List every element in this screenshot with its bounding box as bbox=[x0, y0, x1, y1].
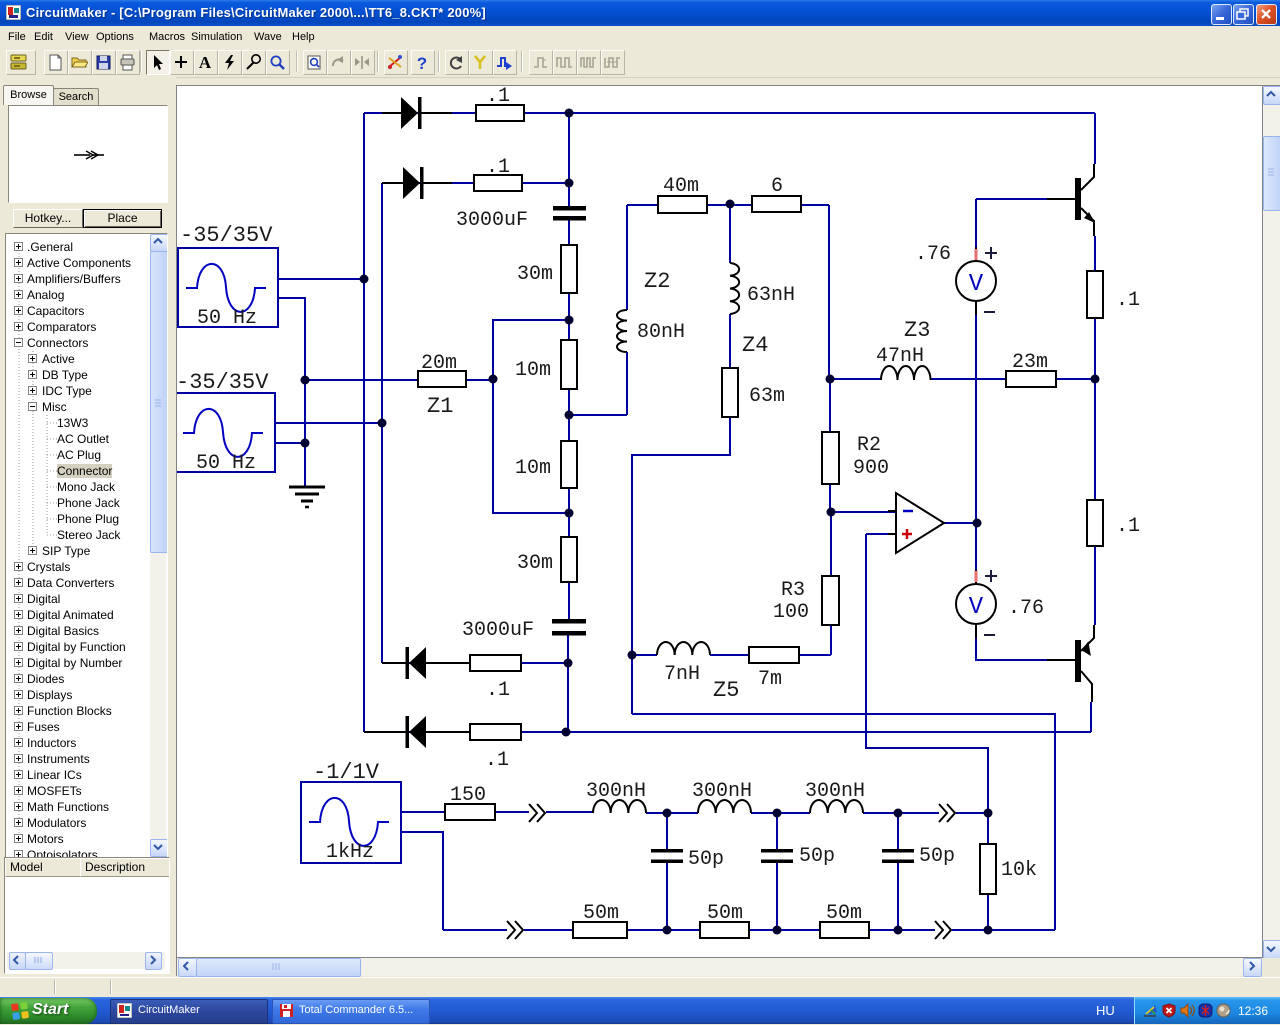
inductor 300nH second bbox=[698, 800, 751, 813]
wire filter bottom rail bbox=[443, 929, 1055, 931]
svg-text:300nH: 300nH bbox=[805, 780, 865, 803]
wire op-amp plus input feedback bbox=[866, 534, 988, 813]
inductor Z3 47nH bbox=[881, 366, 931, 380]
svg-text:-1/1V: -1/1V bbox=[313, 760, 380, 785]
resistor 50m first bbox=[573, 922, 627, 938]
wire Z1 row bbox=[305, 379, 493, 381]
svg-text:47nH: 47nH bbox=[876, 345, 924, 368]
svg-text:50 Hz: 50 Hz bbox=[196, 452, 256, 475]
resistor .1 fourth bbox=[470, 724, 521, 740]
svg-text:50p: 50p bbox=[688, 848, 724, 871]
svg-text:900: 900 bbox=[853, 457, 889, 480]
diode D3 bbox=[382, 647, 470, 679]
resistor 40m bbox=[658, 196, 707, 213]
inductor Z5 7nH bbox=[657, 642, 710, 655]
wire Z5 row bbox=[632, 654, 749, 656]
svg-text:150: 150 bbox=[450, 784, 486, 807]
svg-text:Z5: Z5 bbox=[713, 678, 739, 703]
svg-text:300nH: 300nH bbox=[586, 780, 646, 803]
wire source V1 plus terminal bbox=[278, 278, 364, 280]
diode D4 bbox=[364, 716, 470, 748]
inductor 300nH first bbox=[593, 800, 646, 813]
svg-text:50m: 50m bbox=[583, 902, 619, 925]
resistor .1 top bbox=[476, 105, 524, 121]
capacitor 50p third bbox=[882, 849, 914, 863]
svg-text:3000uF: 3000uF bbox=[456, 209, 528, 232]
source V2 -35/35V box bbox=[175, 393, 275, 472]
wire right vertical bbox=[1091, 113, 1095, 732]
svg-text:10m: 10m bbox=[515, 457, 551, 480]
svg-text:?: ? bbox=[417, 54, 427, 71]
svg-text:100: 100 bbox=[773, 601, 809, 624]
wire filter top rail bbox=[401, 812, 988, 813]
wire op-amp minus input bbox=[831, 511, 896, 513]
resistor R3 100 bbox=[822, 576, 839, 625]
svg-text:Z4: Z4 bbox=[742, 333, 768, 358]
svg-text:50m: 50m bbox=[707, 902, 743, 925]
voltmeter VM2 bbox=[956, 570, 997, 638]
svg-text:50 Hz: 50 Hz bbox=[197, 307, 257, 330]
resistor R2 900 bbox=[822, 432, 839, 484]
svg-text:50m: 50m bbox=[826, 902, 862, 925]
diode D2 bbox=[382, 167, 452, 199]
wire 47nH row bbox=[830, 378, 1095, 380]
svg-text:.1: .1 bbox=[1116, 515, 1140, 538]
resistor 7m bbox=[749, 647, 799, 663]
inductor 300nH third bbox=[810, 800, 863, 813]
svg-text:23m: 23m bbox=[1012, 351, 1048, 374]
svg-text:7m: 7m bbox=[758, 668, 782, 691]
resistor .1 right bottom bbox=[1087, 500, 1103, 546]
wire Q1 base bbox=[976, 198, 1047, 200]
resistor .1 third bbox=[470, 655, 521, 671]
transistor Q1 bbox=[1047, 164, 1095, 236]
svg-text:Z1: Z1 bbox=[427, 394, 453, 419]
op-amp U1 bbox=[888, 493, 944, 553]
wire Z2 branch bbox=[569, 205, 658, 415]
resistor 63m bbox=[722, 368, 738, 417]
wire 50p cap stubs bbox=[667, 813, 898, 930]
wire 6 to node via x=829 bbox=[801, 205, 829, 379]
svg-text:80nH: 80nH bbox=[637, 321, 685, 344]
svg-text:V: V bbox=[969, 594, 984, 621]
wire R2 node column bbox=[799, 379, 831, 655]
resistor 10m bbox=[561, 340, 577, 389]
wire Z4 top bbox=[729, 204, 731, 368]
source V3 -1/1V box bbox=[301, 782, 401, 863]
junction nodes bbox=[301, 109, 1100, 935]
capacitor 50p first bbox=[651, 849, 683, 863]
resistor 150 bbox=[445, 804, 495, 820]
wire op-amp output bbox=[944, 522, 977, 524]
svg-text:.1: .1 bbox=[486, 679, 510, 702]
svg-text:30m: 30m bbox=[517, 552, 553, 575]
svg-text:3000uF: 3000uF bbox=[462, 619, 534, 642]
svg-text:.1: .1 bbox=[486, 156, 510, 179]
bus arrow 4 bbox=[935, 921, 951, 939]
svg-text:10k: 10k bbox=[1001, 859, 1037, 882]
capacitor 3000uF bottom bbox=[552, 619, 586, 636]
bus arrow 2 bbox=[939, 804, 955, 822]
resistor 23m bbox=[1006, 371, 1056, 387]
inductor Z4 63nH bbox=[730, 263, 739, 314]
svg-text:.1: .1 bbox=[485, 749, 509, 772]
source V1 -35/35V box bbox=[178, 248, 278, 327]
wire center column bbox=[568, 113, 569, 732]
svg-text:.1: .1 bbox=[486, 86, 510, 108]
wire diode D3 row bbox=[382, 662, 568, 664]
resistor 6 bbox=[752, 196, 801, 212]
svg-text:.1: .1 bbox=[1116, 289, 1140, 312]
voltmeter VM1 bbox=[956, 247, 997, 315]
wire source V2 minus terminal bbox=[275, 442, 305, 444]
inductor Z2 80nH bbox=[617, 310, 627, 352]
svg-text:R2: R2 bbox=[857, 434, 881, 457]
svg-text:.76: .76 bbox=[1008, 597, 1044, 620]
resistor 50m second bbox=[700, 922, 749, 938]
wire Z4 63m bottom loop bbox=[632, 417, 730, 714]
wire diode D2 row bbox=[382, 182, 569, 184]
resistor 30m bbox=[561, 245, 577, 293]
svg-text:30m: 30m bbox=[517, 263, 553, 286]
svg-text:10m: 10m bbox=[515, 359, 551, 382]
svg-text:6: 6 bbox=[771, 175, 783, 198]
wire 40m to 6 bbox=[707, 204, 752, 206]
wire y714 to bottom rail bbox=[632, 714, 1055, 930]
svg-text:1kHz: 1kHz bbox=[326, 841, 374, 864]
diode D1 bbox=[382, 97, 452, 129]
wire top rail bbox=[364, 112, 1095, 114]
svg-text:20m: 20m bbox=[421, 352, 457, 375]
wire source V2 plus terminal bbox=[275, 422, 382, 424]
resistor 30m second bbox=[561, 537, 577, 582]
capacitor 3000uF top bbox=[553, 206, 586, 221]
resistor 50m third bbox=[820, 922, 869, 938]
capacitor 50p second bbox=[761, 849, 793, 863]
ground bbox=[289, 487, 325, 507]
resistor 10m second bbox=[561, 441, 577, 488]
svg-text:Z3: Z3 bbox=[904, 318, 930, 343]
wire left vertical 2 bbox=[381, 183, 383, 663]
svg-text:A: A bbox=[199, 54, 212, 71]
resistor 10k bbox=[980, 844, 996, 894]
wire source V1 minus to ground bbox=[278, 298, 305, 487]
svg-text:7nH: 7nH bbox=[664, 663, 700, 686]
wire Q2 base bbox=[976, 638, 1047, 660]
transistor Q2 bbox=[1047, 625, 1094, 702]
wire 10k stubs bbox=[987, 813, 989, 930]
wire left vertical 1 bbox=[363, 113, 365, 732]
wire source V3 lower terminal bbox=[401, 832, 443, 930]
svg-text:50p: 50p bbox=[919, 845, 955, 868]
svg-text:.76: .76 bbox=[915, 243, 951, 266]
wire voltmeter column bbox=[975, 199, 977, 638]
svg-text:300nH: 300nH bbox=[692, 780, 752, 803]
svg-text:-35/35V: -35/35V bbox=[177, 370, 269, 395]
svg-text:63nH: 63nH bbox=[747, 284, 795, 307]
svg-text:R3: R3 bbox=[781, 579, 805, 602]
wire diode D4 row to Q2 collector bbox=[364, 731, 1091, 733]
svg-text:63m: 63m bbox=[749, 385, 785, 408]
svg-text:-35/35V: -35/35V bbox=[180, 223, 273, 248]
svg-text:50p: 50p bbox=[799, 845, 835, 868]
resistor Z1 20m bbox=[418, 371, 466, 387]
bus arrow 3 bbox=[507, 921, 523, 939]
svg-text:V: V bbox=[969, 271, 984, 298]
bus arrow 1 bbox=[529, 804, 545, 822]
wire bypass loop bbox=[493, 320, 569, 513]
resistor .1 second bbox=[474, 175, 522, 191]
svg-text:40m: 40m bbox=[663, 175, 699, 198]
svg-text:Z2: Z2 bbox=[644, 269, 670, 294]
resistor .1 right top bbox=[1087, 271, 1103, 318]
